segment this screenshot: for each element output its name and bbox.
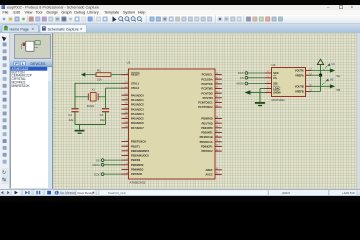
- svg-text:Home Page: Home Page: [10, 27, 29, 31]
- svg-text:-200.0: -200.0: [281, 191, 290, 195]
- svg-text:Template: Template: [104, 10, 119, 14]
- svg-text:×: ×: [351, 5, 354, 10]
- svg-text:Schematic Capture: Schematic Capture: [48, 27, 79, 31]
- svg-text:–: –: [327, 5, 330, 10]
- svg-text:Tool: Tool: [36, 10, 43, 14]
- svg-text:Root Design: Root Design: [78, 191, 95, 195]
- svg-text:↹: ↹: [2, 177, 6, 183]
- svg-text:MINRES10K: MINRES10K: [12, 84, 31, 88]
- svg-text:Design: Design: [47, 10, 58, 14]
- svg-text:Help: Help: [138, 10, 146, 14]
- svg-text:esqrf002 - Proteus 8 Professio: esqrf002 - Proteus 8 Professional - Sche…: [7, 6, 99, 10]
- svg-text:Graph: Graph: [61, 10, 71, 14]
- svg-text:System: System: [123, 10, 135, 14]
- svg-text:i: i: [56, 191, 57, 195]
- svg-text:Debug: Debug: [74, 10, 85, 14]
- svg-text:DEVICES: DEVICES: [31, 62, 47, 66]
- svg-text:freebird_vA2: freebird_vA2: [108, 191, 126, 195]
- svg-text:View: View: [25, 10, 33, 14]
- svg-text:Edit: Edit: [14, 10, 20, 14]
- svg-text:File: File: [3, 10, 9, 14]
- svg-text:+126.5 th: +126.5 th: [342, 191, 355, 195]
- svg-text:↻: ↻: [2, 170, 6, 176]
- svg-text:Library: Library: [87, 10, 98, 14]
